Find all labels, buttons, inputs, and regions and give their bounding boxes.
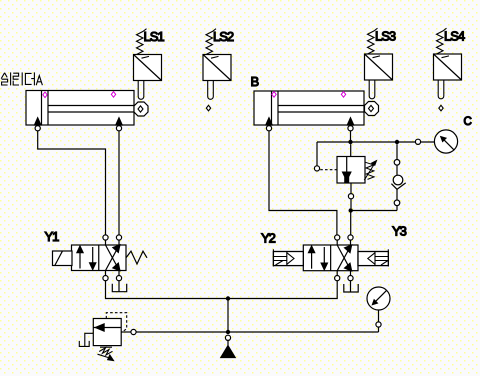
pilot branch to flow control valve xyxy=(314,142,337,171)
LS2 open connection marker (diamond) xyxy=(206,105,210,111)
pressure regulator pilot line (dashed) xyxy=(106,313,126,333)
valve Y1 exhaust xyxy=(112,281,126,292)
valve Y2/Y3 port circles top xyxy=(335,235,354,245)
cylinder A port arrow left xyxy=(35,118,41,131)
valve Y1 port circles bottom xyxy=(103,271,122,281)
valve Y1 port circles top xyxy=(103,235,122,245)
valve Y1 return spring xyxy=(126,251,147,264)
wire cylinder B left port to valve Y2 port 4 xyxy=(269,131,337,235)
svg-text:C: C xyxy=(464,116,472,128)
limit switch LS2 xyxy=(203,29,231,100)
svg-text:Y1: Y1 xyxy=(45,229,60,244)
svg-text:B: B xyxy=(251,74,260,89)
cylinder A port arrow right xyxy=(116,118,122,131)
svg-text:LS2: LS2 xyxy=(213,29,234,44)
LS4 open connection marker (diamond) xyxy=(439,105,443,111)
valve Y2 left actuator (solenoid + pilot) xyxy=(273,249,303,266)
flow control valve adjustment spring xyxy=(364,161,376,181)
check valve (bypass) xyxy=(391,144,405,210)
wire cylinder B right port down to node xyxy=(350,131,352,142)
wire cylinder A right port to valve Y1 port 2 xyxy=(118,131,120,235)
cylinder B rod end roller xyxy=(365,102,379,116)
label 실린더A (cylinder A name, Korean) xyxy=(1,72,42,85)
pressure regulator (supply, bottom left) xyxy=(93,319,121,346)
svg-text:LS1: LS1 xyxy=(144,29,165,44)
pressure regulator vent xyxy=(79,333,93,346)
wire valve Y1 port 1 to supply line xyxy=(106,281,227,299)
cylinder B snap marker right (magenta diamond) xyxy=(341,92,345,98)
svg-text:LS4: LS4 xyxy=(444,28,465,43)
limit switch LS3 xyxy=(365,28,393,99)
flow control / pressure regulator valve (center) xyxy=(337,144,365,208)
cylinder B body xyxy=(254,91,364,125)
valve Y1 (4/2 single solenoid, spring return) xyxy=(72,245,127,271)
valve Y2/Y3 port circles bottom xyxy=(335,271,354,281)
valve Y1 solenoid xyxy=(53,251,73,266)
node line B circuit (cylinder B right port manifold) xyxy=(317,140,434,144)
svg-text:Y2: Y2 xyxy=(261,231,276,246)
cylinder A body xyxy=(26,91,134,126)
cylinder B snap marker left (magenta diamond) xyxy=(272,92,276,98)
supply line bottom xyxy=(136,330,378,334)
pressure gauge bottom xyxy=(367,287,390,332)
cylinder A snap marker right (magenta diamond) xyxy=(111,92,115,98)
wire supply line to valve Y2 port 1 xyxy=(230,281,337,299)
cylinder A snap marker left (magenta diamond) xyxy=(43,92,47,98)
svg-text:LS3: LS3 xyxy=(375,28,396,43)
junction supply tee xyxy=(226,296,230,332)
limit switch LS1 xyxy=(134,29,162,100)
valve Y2/Y3 exhaust xyxy=(344,281,358,293)
pressure regulator outlet port xyxy=(121,329,136,334)
compressed air source xyxy=(221,335,235,357)
cylinder B port arrow left xyxy=(266,118,272,131)
cylinder A rod end roller xyxy=(134,102,148,116)
valve Y3 right actuator (solenoid + pilot) xyxy=(358,249,388,266)
cylinder B port arrow right xyxy=(347,118,353,131)
wire cylinder A left port to valve Y1 port 4 xyxy=(38,131,106,235)
junction under flow control valve xyxy=(349,208,398,235)
pressure gauge C xyxy=(415,130,457,153)
svg-text:Y3: Y3 xyxy=(392,223,407,238)
limit switch LS4 xyxy=(434,28,462,99)
valve Y2/Y3 (4/2 double pilot impulse valve) xyxy=(303,245,358,271)
pressure regulator adjustment spring xyxy=(98,347,114,360)
